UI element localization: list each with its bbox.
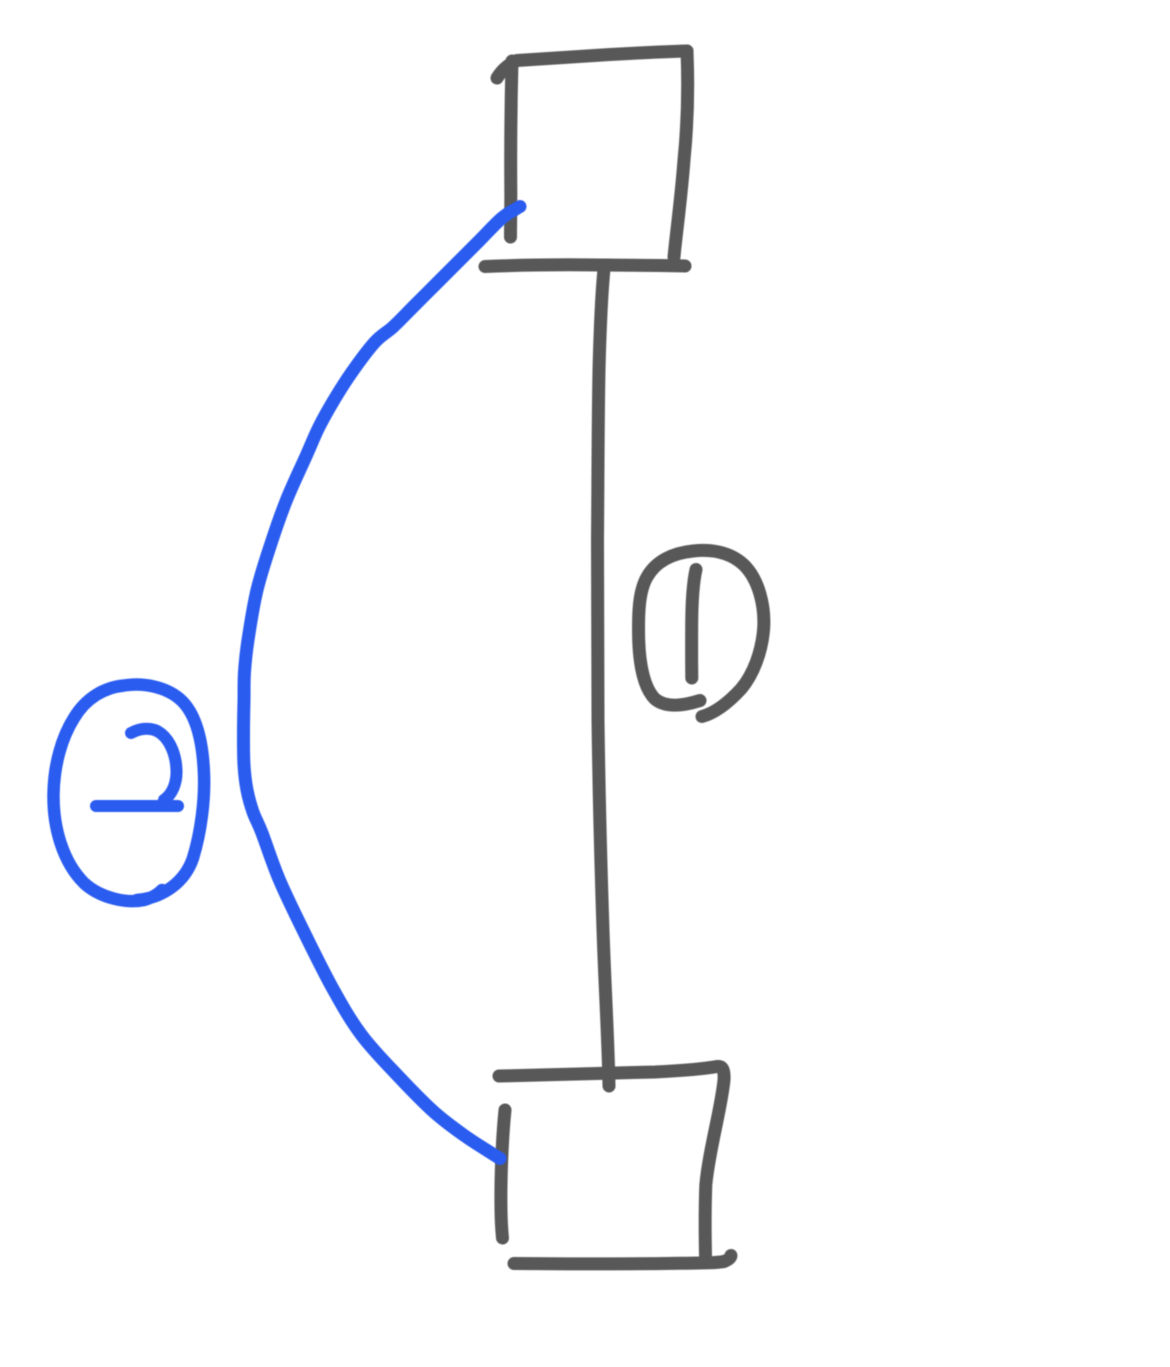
label 2: digit hook [131, 729, 177, 800]
node box top: right edge [674, 51, 688, 257]
node box top: left edge [511, 61, 513, 237]
node box top: bottom edge [485, 265, 685, 267]
wire: vertical connector line [598, 269, 610, 1086]
label 2: digit base bar [96, 800, 178, 812]
node box bottom: left edge [501, 1110, 505, 1238]
label circle 1: ring [639, 550, 764, 716]
wire: blue arc connector [243, 207, 520, 1159]
label 1: digit stroke [692, 570, 696, 679]
node box bottom: bottom edge with hook [514, 1256, 731, 1264]
node box bottom: top edge + right edge [499, 1066, 724, 1255]
node box top: top edge [497, 51, 687, 78]
label circle 2: ring [53, 685, 204, 902]
